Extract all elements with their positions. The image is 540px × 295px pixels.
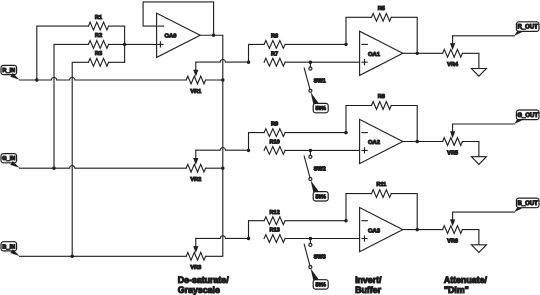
op-amp OA0 [157, 13, 201, 57]
potentiometer VR6 [443, 212, 479, 245]
svg-text:R11: R11 [376, 182, 386, 188]
svg-text:B_OUT: B_OUT [518, 201, 539, 207]
svg-text:R3: R3 [95, 51, 102, 57]
svg-text:Grayscale: Grayscale [178, 285, 220, 295]
resistor R11 (feedback) [344, 182, 417, 229]
net label 50% for SW2 [311, 180, 329, 201]
resistor R7 [264, 51, 360, 66]
node junction G_IN / R2 [52, 167, 55, 170]
caption De-saturate/Grayscale [178, 275, 229, 295]
svg-text:SW3: SW3 [314, 255, 326, 261]
wire OA0 feedback loop [143, 2, 214, 35]
switch SW1 [304, 61, 326, 93]
output port R_OUT [514, 22, 539, 36]
output port B_OUT [514, 198, 539, 212]
input port G_IN [1, 154, 20, 168]
wire VR4 wiper to R_OUT [453, 35, 515, 37]
svg-text:De-saturate/: De-saturate/ [178, 275, 229, 285]
svg-text:OA0: OA0 [165, 34, 177, 40]
node junction B_IN / R3 [71, 255, 74, 258]
potentiometer VR1 [186, 62, 223, 95]
wire VR1 wiper to R6/R7 [196, 59, 249, 62]
svg-text:R6: R6 [271, 34, 278, 40]
wire VR2 wiper to R9/R10 [196, 148, 249, 151]
svg-text:OA1: OA1 [368, 52, 381, 58]
caption Invert/Buffer [355, 275, 382, 295]
node bus / VR2 junction [221, 167, 224, 170]
wire R1/R2/R3 summing node to OA0 + input [125, 26, 157, 62]
net label 50% for SW1 [311, 92, 329, 113]
svg-text:SW1: SW1 [314, 78, 326, 84]
op-amp OA3 [360, 208, 403, 252]
node VR1 wiper junction [247, 61, 250, 64]
potentiometer VR3 [186, 238, 205, 271]
svg-text:VR3: VR3 [190, 265, 201, 271]
wire OA2 output [403, 141, 443, 143]
potentiometer VR2 [186, 150, 223, 183]
resistor R1 [37, 15, 125, 80]
output port G_OUT [514, 110, 539, 124]
input port R_IN [1, 65, 20, 79]
net label 50% for SW3 [311, 268, 329, 289]
node VR3 wiper junction [247, 237, 250, 240]
node junction R_IN / R1 [35, 78, 38, 81]
svg-text:50%: 50% [316, 194, 327, 200]
svg-text:50%: 50% [316, 106, 327, 112]
svg-text:R13: R13 [269, 228, 279, 234]
resistor R3 [72, 51, 124, 256]
resistor R10 [264, 140, 360, 155]
svg-text:Attenuate/: Attenuate/ [444, 275, 488, 285]
wire R_IN input to VR1 [20, 77, 187, 80]
caption Attenuate/Dim [444, 275, 488, 295]
svg-text:R9: R9 [271, 122, 278, 128]
wire grayscale bus (OA0 output down right side) [206, 35, 223, 256]
svg-text:VR6: VR6 [447, 238, 458, 244]
node OA0 output junction [212, 34, 215, 37]
svg-text:VR4: VR4 [447, 62, 459, 68]
svg-text:R2: R2 [95, 33, 102, 39]
wire VR5 wiper to G_OUT [453, 123, 515, 125]
svg-text:Invert/: Invert/ [355, 275, 382, 285]
resistor R9 [249, 122, 347, 151]
svg-text:VR2: VR2 [190, 177, 201, 183]
op-amp OA2 [360, 119, 403, 163]
svg-text:R_OUT: R_OUT [518, 25, 539, 31]
wire OA1 output [403, 52, 443, 54]
node VR2 wiper junction [247, 149, 250, 152]
svg-text:G_OUT: G_OUT [517, 113, 538, 119]
svg-text:B_IN: B_IN [2, 244, 15, 250]
ground [471, 157, 486, 165]
svg-text:50%: 50% [316, 283, 327, 289]
potentiometer VR4 [443, 36, 479, 69]
node OA2 output junction [416, 140, 419, 143]
wire B_IN input to VR3 [20, 255, 187, 257]
resistor R5 (feedback) [344, 6, 417, 53]
svg-text:VR5: VR5 [447, 150, 458, 156]
wire G_IN input to VR2 [20, 166, 187, 169]
resistor R13 [264, 228, 360, 243]
node OA3 output junction [416, 228, 419, 231]
resistor R12 [249, 210, 347, 239]
node OA1 output junction [416, 52, 419, 55]
svg-text:OA2: OA2 [368, 140, 380, 146]
svg-text:R1: R1 [95, 15, 102, 21]
wire VR3 wiper to R12/R13 [196, 236, 249, 239]
svg-text:R8: R8 [378, 94, 385, 100]
svg-text:VR1: VR1 [190, 89, 201, 95]
svg-text:R10: R10 [269, 140, 279, 146]
svg-text:Buffer: Buffer [355, 285, 381, 295]
svg-text:"Dim": "Dim" [444, 285, 469, 295]
svg-text:OA3: OA3 [368, 228, 381, 234]
wire VR6 wiper to B_OUT [453, 211, 515, 213]
switch SW3 [304, 237, 326, 269]
svg-text:R5: R5 [378, 6, 385, 12]
op-amp OA1 [360, 31, 403, 75]
svg-text:R12: R12 [269, 210, 279, 216]
ground [471, 69, 486, 77]
svg-text:G_IN: G_IN [2, 156, 15, 162]
svg-text:R_IN: R_IN [2, 68, 15, 74]
svg-text:R7: R7 [271, 51, 278, 57]
node bus / VR1 junction [221, 78, 224, 81]
resistor R8 (feedback) [344, 94, 417, 141]
node summing junction [123, 43, 126, 46]
resistor R2 [54, 33, 125, 168]
input port B_IN [1, 242, 20, 256]
resistor R6 [249, 34, 347, 63]
potentiometer VR5 [443, 124, 479, 157]
wire OA3 output [403, 229, 443, 231]
ground [471, 245, 486, 253]
switch SW2 [304, 149, 326, 181]
svg-text:SW2: SW2 [314, 167, 326, 173]
